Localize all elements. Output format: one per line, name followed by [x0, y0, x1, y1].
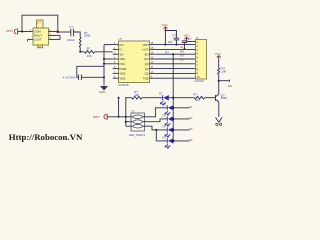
svg-text:VCC: VCC	[162, 23, 168, 27]
wire cap to resistor	[73, 32, 80, 37]
svg-text:U: U	[39, 45, 41, 49]
gnd bus	[103, 45, 105, 86]
plug SPK2	[93, 114, 108, 120]
svg-text:SC9148: SC9148	[119, 83, 130, 87]
IC U1	[119, 37, 150, 87]
svg-text:C?: C?	[188, 37, 192, 41]
wire cap2 to bus	[81, 76, 104, 78]
wire to capacitor	[58, 31, 71, 33]
IC pin numbers	[114, 43, 154, 79]
capacitor C1	[67, 25, 75, 42]
bus vertical from IC row3 to diode rows	[172, 54, 174, 141]
opto box T1	[129, 109, 145, 137]
wire to diode D0	[142, 97, 163, 99]
svg-text:CBa: CBa	[120, 57, 126, 61]
svg-text:Q3: Q3	[145, 67, 149, 71]
svg-text:C?: C?	[172, 34, 176, 38]
svg-text:GND: GND	[99, 90, 105, 94]
IC pins left	[113, 45, 119, 79]
svg-text:R?: R?	[165, 50, 169, 54]
audio jack U2	[33, 20, 49, 49]
capacitor C3	[168, 34, 180, 46]
resistor R4 base	[195, 96, 205, 99]
svg-text:LOUT: LOUT	[34, 37, 42, 41]
svg-text:100K: 100K	[84, 34, 91, 38]
IC pins right	[150, 45, 156, 79]
svg-text:VN: VN	[120, 52, 124, 56]
svg-text:R?: R?	[193, 92, 197, 96]
svg-text:SPK?: SPK?	[6, 29, 14, 33]
svg-text:Q2: Q2	[145, 72, 149, 76]
svg-text:TOE: TOE	[143, 76, 149, 80]
opto right pins stepped wires	[145, 108, 161, 141]
svg-text:D?: D?	[163, 102, 167, 106]
svg-text:4.7uF/50V: 4.7uF/50V	[63, 76, 76, 80]
IC pin names	[120, 43, 149, 81]
svg-text:U?: U?	[119, 37, 123, 41]
diode D4 row5	[161, 136, 193, 149]
resistor R2 horizontal	[85, 50, 95, 53]
diode D3 row4	[161, 125, 193, 138]
diode D0 row1	[159, 91, 169, 105]
svg-text:PWM: PWM	[120, 67, 128, 71]
svg-text:VM1: VM1	[120, 72, 126, 76]
svg-text:2K2: 2K2	[195, 98, 200, 102]
stub wire with net label	[219, 80, 230, 82]
wire vcc2 to connector pin1	[187, 41, 193, 43]
diode D1 row2	[161, 102, 193, 115]
svg-text:D?: D?	[163, 136, 167, 140]
wire vcc3 down	[218, 59, 220, 68]
wire cap2 left riser	[77, 66, 104, 77]
wires IC left to gnd bus	[104, 44, 113, 46]
wire plug2 to opto	[108, 116, 131, 118]
svg-text:D4: D4	[189, 138, 193, 142]
svg-text:EN: EN	[145, 52, 149, 56]
svg-text:VDD: VDD	[143, 43, 149, 47]
wire bundle IC to connector	[155, 45, 195, 79]
svg-text:VM2: VM2	[120, 76, 126, 80]
transistor Q1	[215, 93, 227, 101]
vcc port VCC3	[215, 52, 221, 59]
svg-text:C?: C?	[69, 25, 73, 29]
svg-text:IN2: IN2	[144, 57, 149, 61]
svg-text:10K: 10K	[221, 69, 226, 73]
svg-text:Http://Robocon.VN: Http://Robocon.VN	[9, 132, 83, 142]
wire to base	[205, 97, 216, 99]
svg-text:D1: D1	[180, 58, 184, 62]
svg-text:8050: 8050	[221, 96, 228, 100]
svg-text:CON10: CON10	[194, 79, 204, 83]
wire row1 right	[169, 97, 195, 99]
svg-text:10: 10	[196, 75, 199, 79]
wire	[80, 49, 84, 52]
capacitor C4	[182, 37, 192, 49]
connector P1 plug	[6, 29, 19, 35]
svg-text:J?: J?	[196, 36, 199, 40]
svg-text:EN: EN	[228, 84, 232, 88]
svg-text:D-: D-	[120, 48, 123, 52]
junction	[21, 31, 23, 33]
wire feedback loop	[22, 15, 58, 32]
svg-text:T?: T?	[131, 109, 135, 113]
svg-text:Q4: Q4	[145, 62, 149, 66]
pins of jack	[49, 31, 58, 33]
ground arrow	[216, 117, 223, 122]
left pins bus of opto	[125, 98, 127, 127]
junction red square	[57, 31, 59, 33]
connector J1	[192, 36, 206, 83]
vcc port VCC2	[184, 33, 190, 41]
svg-text:LED_PH4C4: LED_PH4C4	[129, 133, 145, 137]
resistor R3	[132, 96, 142, 99]
svg-text:R?: R?	[87, 47, 91, 51]
svg-text:10K: 10K	[134, 93, 139, 97]
vcc port VCC1	[162, 23, 168, 31]
svg-text:104: 104	[168, 40, 173, 44]
wire vcc1 down to VDD row	[164, 31, 166, 45]
label oo	[216, 123, 218, 125]
capacitor C2	[63, 75, 82, 81]
svg-text:104uF: 104uF	[67, 38, 75, 42]
svg-text:DSC: DSC	[120, 62, 126, 66]
svg-text:SPK?: SPK?	[93, 115, 101, 119]
wire vcc1 to cap3	[165, 31, 176, 38]
resistor R1 vertical	[79, 37, 81, 49]
svg-text:VCC: VCC	[215, 52, 221, 56]
svg-text:InOT: InOT	[142, 48, 149, 52]
wire plug to jack	[19, 31, 34, 33]
opto pins left stubs	[126, 121, 131, 123]
svg-text:D2: D2	[189, 116, 193, 120]
wire resistor to collector	[218, 75, 220, 94]
svg-text:D?: D?	[159, 91, 163, 95]
svg-text:D?: D?	[163, 114, 167, 118]
svg-text:D1: D1	[189, 105, 193, 109]
vertical from row1 to opto pins	[118, 98, 120, 117]
wire emitter down	[218, 102, 220, 117]
ground GND1	[99, 86, 108, 94]
row1 wire left	[125, 97, 132, 99]
svg-text:D?: D?	[163, 125, 167, 129]
diode D2 row3	[161, 114, 193, 127]
wire resistor to IC	[95, 51, 113, 53]
resistor R5	[218, 68, 220, 75]
svg-text:IN1: IN1	[120, 43, 125, 47]
svg-text:10K: 10K	[87, 54, 92, 58]
svg-text:D3: D3	[189, 127, 193, 131]
svg-text:U?: U?	[37, 20, 41, 24]
